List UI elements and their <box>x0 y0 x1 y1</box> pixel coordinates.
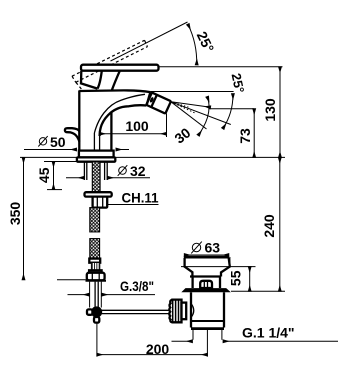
svg-text:45: 45 <box>36 167 52 183</box>
svg-text:32: 32 <box>130 163 146 179</box>
svg-text:200: 200 <box>146 341 170 357</box>
svg-text:240: 240 <box>261 214 277 238</box>
svg-text:G.3/8": G.3/8" <box>120 278 154 294</box>
svg-text:130: 130 <box>262 98 278 122</box>
svg-text:G.1 1/4": G.1 1/4" <box>242 325 295 341</box>
svg-text:73: 73 <box>237 128 253 144</box>
svg-text:55: 55 <box>228 270 244 286</box>
svg-text:100: 100 <box>125 118 149 134</box>
svg-text:63: 63 <box>205 240 221 256</box>
svg-text:50: 50 <box>50 134 66 150</box>
svg-text:350: 350 <box>7 202 23 226</box>
svg-text:CH.11: CH.11 <box>122 189 159 205</box>
